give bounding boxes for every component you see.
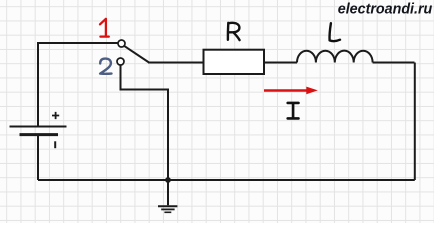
switch terminal 2 contact circle: [117, 58, 124, 65]
node junction dot: [165, 177, 171, 183]
label 2 (switch position 2, slate): [100, 59, 111, 74]
label R (resistor): [228, 23, 240, 40]
label L (inductor): [330, 23, 340, 41]
label 1 (switch position 1, red): [100, 19, 109, 37]
switch terminal 1 contact circle: [118, 40, 125, 47]
wire bottom rail: [38, 179, 415, 181]
inductor L coil: [297, 51, 373, 63]
switch SW1 arm (pole at terminal 1): [124, 46, 149, 63]
battery minus mark (vertical tick): [54, 141, 56, 148]
label I (current): [288, 103, 299, 119]
svg-text:electroandi.ru: electroandi.ru: [338, 2, 433, 18]
wire from switch arm to resistor: [148, 62, 203, 64]
battery B1 positive plate: [10, 126, 67, 128]
resistor R body: [204, 50, 265, 74]
wire battery negative to bottom rail: [37, 135, 39, 181]
battery B1 negative plate: [20, 133, 59, 136]
current arrow (red): [264, 89, 307, 91]
wire resistor to inductor: [264, 62, 297, 64]
battery plus mark: [52, 112, 59, 119]
ground: [158, 206, 177, 212]
wire inductor to right corner: [373, 62, 415, 64]
wire right vertical branch: [414, 63, 416, 181]
wire top rail from battery to switch terminal 1: [38, 43, 118, 127]
wire from switch terminal 2 down and over to ground node: [121, 65, 169, 205]
